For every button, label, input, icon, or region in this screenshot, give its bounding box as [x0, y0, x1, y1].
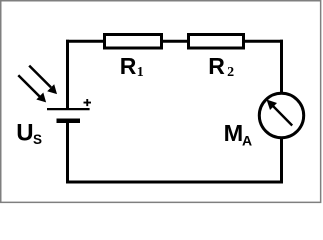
wire left vertical lower	[66, 122, 69, 184]
svg-text:A: A	[242, 133, 252, 149]
svg-text:1: 1	[137, 65, 144, 80]
label R2	[208, 53, 234, 80]
label U_S	[16, 120, 42, 148]
wire right vertical upper	[280, 40, 283, 93]
wire right vertical lower	[280, 138, 283, 184]
resistor R2	[189, 35, 244, 49]
svg-text:R: R	[208, 53, 225, 79]
wire left vertical upper	[66, 40, 69, 109]
svg-text:S: S	[33, 132, 42, 147]
meter M_A	[259, 93, 303, 137]
svg-text:M: M	[224, 120, 244, 146]
light arrow 1	[29, 66, 57, 95]
wire bottom horizontal	[66, 181, 283, 184]
label M_A	[224, 120, 253, 148]
plus sign at battery positive terminal	[84, 99, 92, 106]
resistor R1	[105, 35, 162, 49]
battery US bottom plate (short thick)	[57, 119, 81, 124]
wire R1 to R2	[163, 40, 187, 43]
wire R2 to top-right corner	[245, 40, 283, 43]
svg-text:2: 2	[227, 65, 234, 80]
label R1	[120, 53, 144, 80]
light arrow 2	[18, 75, 46, 102]
svg-text:R: R	[120, 53, 137, 79]
battery US top plate (long thin)	[47, 108, 90, 110]
wire top-left horizontal	[66, 40, 103, 43]
svg-text:U: U	[16, 120, 33, 147]
